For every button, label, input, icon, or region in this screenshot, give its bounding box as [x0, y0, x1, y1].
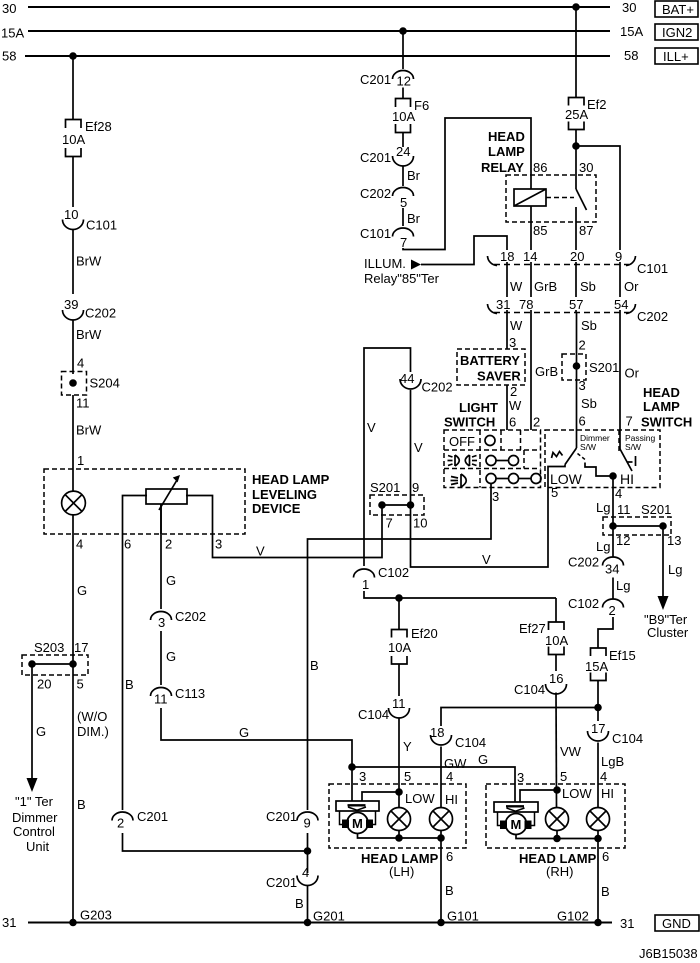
svg-text:5: 5 — [551, 485, 558, 500]
wire BrW C101 to C202 — [73, 229, 102, 294]
node C201-9/2 junction — [304, 847, 312, 855]
svg-text:10A: 10A — [62, 132, 85, 147]
svg-text:15A: 15A — [620, 24, 643, 39]
wire G junction to RH lamp pin3 — [352, 752, 515, 802]
svg-text:M: M — [511, 817, 522, 832]
wire bus15A to C201 pin12 — [402, 31, 404, 69]
wire C201-12 to fuse F6 — [402, 88, 404, 99]
svg-text:25A: 25A — [565, 107, 588, 122]
wire Br C201-24 to C202-5 — [403, 166, 421, 186]
svg-text:IGN2: IGN2 — [662, 25, 692, 40]
svg-text:OFF: OFF — [449, 434, 475, 449]
battery saver box — [457, 349, 525, 385]
node LH LOW junction — [395, 788, 403, 796]
junction on bus 30 — [572, 3, 580, 11]
splice S204 — [62, 372, 120, 396]
connector C201 pin 12 — [360, 71, 414, 89]
svg-text:12: 12 — [616, 533, 630, 548]
light switch headlamp contacts — [486, 474, 541, 505]
svg-text:11: 11 — [617, 502, 631, 517]
wire V leveling pin3 to splice S201 pin7 — [213, 516, 383, 559]
svg-text:3: 3 — [215, 537, 222, 552]
wire ILLUM to C101 pin18 — [421, 236, 507, 312]
wire W battery saver to light switch pin6 — [507, 384, 522, 430]
svg-text:Relay"85"Ter: Relay"85"Ter — [364, 271, 440, 286]
svg-text:SAVER: SAVER — [477, 369, 521, 384]
svg-text:C201: C201 — [360, 150, 391, 165]
LH HI lamp — [430, 808, 453, 831]
svg-text:20: 20 — [570, 249, 584, 264]
node RH lamp common junctions — [553, 835, 561, 843]
svg-text:V: V — [482, 552, 491, 567]
connector C102 pin 2 — [568, 596, 624, 618]
svg-text:Sb: Sb — [580, 279, 596, 294]
svg-text:58: 58 — [624, 48, 638, 63]
splice S201 (pins 9/7/10) — [370, 480, 427, 531]
svg-text:C104: C104 — [358, 707, 389, 722]
svg-text:"1" Ter: "1" Ter — [15, 794, 54, 809]
relay box — [506, 175, 596, 222]
junction on bus 58 — [69, 52, 77, 60]
svg-text:78: 78 — [519, 297, 533, 312]
fuse Ef20 10A — [388, 626, 438, 664]
wire B S203 to ground G203 — [73, 664, 86, 923]
wire RH HI lamp bottom to ground G102 — [598, 831, 610, 923]
wire Y C104-11 to LH lamp pin5 — [399, 719, 412, 808]
svg-text:57: 57 — [569, 297, 583, 312]
wire RH pin3 into motor — [514, 801, 516, 804]
svg-text:B: B — [445, 883, 454, 898]
node Ef15 output junction — [594, 704, 602, 712]
wire rheostat right to pin3 — [186, 496, 213, 535]
light switch OFF position — [449, 434, 495, 449]
fuse Ef15 15A — [585, 648, 636, 681]
svg-text:3: 3 — [359, 769, 366, 784]
wire rheostat left to pin6 — [123, 496, 148, 535]
connector C104 pin 18 — [430, 725, 486, 750]
svg-text:LgB: LgB — [601, 754, 624, 769]
svg-text:10A: 10A — [388, 640, 411, 655]
svg-text:LOW: LOW — [562, 786, 592, 801]
svg-text:18: 18 — [430, 725, 444, 740]
svg-text:86: 86 — [533, 160, 547, 175]
svg-text:3: 3 — [492, 489, 499, 504]
connector C104 pin 17 — [588, 721, 644, 746]
head lamp leveling device box — [44, 469, 245, 534]
LH leveling motor — [336, 801, 379, 834]
svg-text:Sb: Sb — [581, 318, 597, 333]
svg-text:30: 30 — [2, 1, 16, 16]
svg-text:85: 85 — [533, 223, 547, 238]
svg-text:54: 54 — [614, 297, 628, 312]
svg-text:31: 31 — [496, 297, 510, 312]
svg-text:2: 2 — [510, 384, 517, 399]
connector row C101 — [488, 249, 669, 276]
svg-text:11: 11 — [154, 692, 168, 707]
wire C101-7 loop to relay coil 86 — [403, 118, 531, 250]
svg-text:3: 3 — [158, 615, 165, 630]
svg-text:B: B — [295, 896, 304, 911]
node G wire junction — [348, 763, 356, 771]
svg-text:31: 31 — [620, 916, 634, 931]
svg-text:Lg: Lg — [596, 539, 610, 554]
light switch parking icon — [448, 455, 478, 466]
wire Ef2 to relay contact 30 — [575, 130, 577, 190]
wire Ef27 to C104 pin16 — [555, 655, 557, 672]
svg-text:C102: C102 — [568, 596, 599, 611]
svg-text:C201: C201 — [266, 875, 297, 890]
svg-text:15A: 15A — [585, 659, 608, 674]
svg-text:17: 17 — [591, 721, 605, 736]
connector C104 pin 11 — [358, 696, 410, 722]
svg-text:31: 31 — [2, 915, 16, 930]
LH LOW lamp — [388, 808, 411, 831]
leveling device title — [252, 472, 330, 516]
wire VW C104-16 to RH lamp pin5 — [556, 693, 582, 808]
svg-text:S203: S203 — [34, 640, 64, 655]
svg-text:B: B — [601, 884, 610, 899]
connector C202 pin 39 — [63, 297, 117, 321]
svg-text:C104: C104 — [455, 735, 486, 750]
svg-text:Ef15: Ef15 — [609, 648, 636, 663]
svg-text:HI: HI — [601, 786, 614, 801]
svg-text:Lg: Lg — [616, 578, 630, 593]
wire Lg S201-13 to B9 cluster arrow — [658, 526, 683, 610]
svg-text:G: G — [36, 724, 46, 739]
svg-text:W: W — [510, 279, 523, 294]
svg-text:W: W — [509, 398, 522, 413]
wire RH LOW lamp bottom — [556, 831, 558, 839]
wire W C202-31 to battery saver — [507, 312, 523, 350]
svg-text:C102: C102 — [378, 565, 409, 580]
svg-text:V: V — [256, 544, 265, 559]
relay coil to contact dashed link — [546, 197, 574, 199]
RH LOW lamp — [546, 808, 569, 831]
svg-text:LOW: LOW — [405, 791, 435, 806]
svg-text:HEAD: HEAD — [643, 385, 680, 400]
svg-text:11: 11 — [392, 696, 406, 711]
leveling lamp — [62, 491, 86, 515]
wire B C201-4 to ground G201 — [295, 886, 308, 923]
svg-text:17: 17 — [74, 640, 88, 655]
svg-text:2: 2 — [533, 415, 540, 430]
terminal box ILL+ — [655, 48, 698, 64]
svg-text:39: 39 — [64, 297, 78, 312]
rheostat in leveling device — [146, 475, 187, 510]
bus 15A (IGN2) — [1, 24, 643, 41]
wire Lg C202-34 to C102 pin2 — [613, 578, 630, 600]
svg-text:30: 30 — [622, 0, 636, 15]
connector C201 pin 24 — [360, 144, 414, 166]
svg-text:Sb: Sb — [581, 396, 597, 411]
svg-text:3: 3 — [517, 770, 524, 785]
svg-text:LIGHT: LIGHT — [459, 400, 498, 415]
svg-text:Lg: Lg — [596, 500, 610, 515]
svg-text:S201: S201 — [370, 480, 400, 495]
svg-text:LAMP: LAMP — [488, 144, 525, 159]
fuse Ef27 10A — [519, 621, 568, 655]
svg-text:5: 5 — [560, 769, 567, 784]
dimmer switch blade — [565, 448, 577, 465]
svg-text:HI: HI — [620, 471, 634, 487]
wire F6 to C201 pin24 — [402, 133, 404, 148]
splice S201 (pins 2/3) — [562, 354, 619, 380]
wire C102-1 to fuse junction — [364, 591, 556, 598]
wire dimmer HI contact step to node — [585, 463, 613, 477]
svg-text:G102: G102 — [557, 909, 589, 924]
RH HI lamp — [587, 808, 610, 831]
head lamp LH title — [361, 851, 439, 879]
svg-text:6: 6 — [124, 537, 131, 552]
svg-text:6: 6 — [446, 849, 453, 864]
svg-text:24: 24 — [396, 144, 410, 159]
svg-text:ILLUM.: ILLUM. — [364, 256, 406, 271]
svg-text:2: 2 — [579, 338, 586, 353]
svg-text:GND: GND — [662, 916, 691, 931]
node Ef20 feed junction — [395, 594, 403, 602]
splice S203 — [22, 640, 88, 692]
svg-text:VW: VW — [560, 744, 582, 759]
wire Sb C202-57 to dimmer switch pin6 — [577, 312, 597, 448]
svg-text:S/W: S/W — [580, 442, 596, 452]
svg-text:RELAY: RELAY — [481, 160, 524, 175]
connector row C202 — [488, 297, 669, 324]
svg-text:10: 10 — [64, 207, 78, 222]
wire B light switch pin3 to C201 pin9 — [308, 484, 492, 811]
label B9 Ter Cluster — [644, 612, 689, 640]
wire Ef28 to C101 pin10 — [72, 157, 74, 208]
wire V S201-9 to C202 pin44 — [411, 390, 424, 505]
svg-text:C202: C202 — [637, 309, 668, 324]
svg-text:Y: Y — [403, 739, 412, 754]
svg-text:7: 7 — [386, 516, 393, 531]
wire RH LOW branch to motor — [520, 790, 557, 802]
wire BrW S204 to leveling device pin1 — [73, 395, 102, 492]
connector C201 pin 9 — [266, 809, 318, 831]
svg-text:2: 2 — [609, 603, 616, 618]
svg-text:Ef20: Ef20 — [411, 626, 438, 641]
connector C202 pin 3 — [151, 609, 207, 630]
head lamp switch title — [641, 385, 692, 430]
svg-text:C202: C202 — [360, 186, 391, 201]
wire junction to fuse Ef20 — [398, 598, 400, 629]
svg-text:14: 14 — [523, 249, 537, 264]
svg-text:C202: C202 — [175, 609, 206, 624]
svg-text:4: 4 — [76, 537, 83, 552]
wire LH pin3 into motor — [351, 767, 353, 801]
svg-text:ILL+: ILL+ — [663, 49, 689, 64]
head lamp RH box — [486, 784, 625, 848]
connector C101 pin 7 — [360, 226, 414, 250]
svg-text:2: 2 — [165, 537, 172, 552]
svg-text:B: B — [125, 677, 134, 692]
bus 58 (ILL+) — [2, 48, 638, 64]
wire LH motor bottom to common — [358, 834, 442, 839]
svg-text:4: 4 — [446, 769, 453, 784]
wire BrW C202 to S204 — [73, 320, 102, 374]
LH pin labels 3 5 4 — [359, 769, 453, 784]
svg-text:M: M — [352, 816, 363, 831]
svg-text:G: G — [166, 573, 176, 588]
light switch headlamp icon — [451, 474, 467, 487]
svg-text:(W/O: (W/O — [77, 709, 107, 724]
svg-text:5: 5 — [77, 677, 84, 692]
wire bus58 to fuse Ef28 — [72, 56, 74, 120]
dimmer S/W label — [580, 433, 610, 452]
wire G leveling pin2 to C202 pin3 — [161, 504, 176, 609]
svg-text:6: 6 — [509, 415, 516, 430]
wire C201-2 to junction — [123, 833, 308, 851]
connector C202 pin 44 — [400, 371, 453, 395]
svg-text:Or: Or — [624, 279, 639, 294]
svg-text:C201: C201 — [137, 809, 168, 824]
junction on bus 15A — [399, 27, 407, 35]
wire G C113-11 across to head lamps — [161, 708, 352, 767]
ground G101 — [437, 909, 479, 927]
wire labels W GrB Sb Or — [510, 279, 639, 294]
wire G S203 to dimmer control unit arrow — [27, 664, 47, 792]
svg-text:SWITCH: SWITCH — [444, 415, 495, 430]
svg-text:3: 3 — [509, 335, 516, 350]
svg-text:Ef2: Ef2 — [587, 97, 607, 112]
passing switch contact — [627, 456, 636, 466]
svg-text:9: 9 — [615, 249, 622, 264]
svg-text:SWITCH: SWITCH — [641, 415, 692, 430]
svg-text:20: 20 — [37, 677, 51, 692]
svg-text:5: 5 — [400, 195, 407, 210]
connector C102 pin 1 — [354, 565, 410, 592]
svg-text:Or: Or — [625, 366, 640, 381]
svg-text:C104: C104 — [612, 731, 643, 746]
svg-text:Unit: Unit — [26, 839, 50, 854]
svg-text:9: 9 — [412, 480, 419, 495]
svg-text:10A: 10A — [545, 633, 568, 648]
svg-text:4: 4 — [600, 769, 607, 784]
svg-text:C202: C202 — [85, 306, 116, 321]
svg-text:87: 87 — [579, 223, 593, 238]
node RH LOW junction — [553, 786, 561, 794]
dimmer blade dashed link — [578, 454, 586, 460]
connector C101 pin 10 — [63, 207, 118, 233]
svg-text:C101: C101 — [637, 261, 668, 276]
svg-text:S201: S201 — [589, 360, 619, 375]
svg-text:BrW: BrW — [76, 327, 102, 342]
svg-text:Ef28: Ef28 — [85, 119, 112, 134]
svg-text:F6: F6 — [414, 98, 429, 113]
connector C113 pin 11 — [151, 686, 206, 707]
svg-text:DIM.): DIM.) — [77, 724, 109, 739]
svg-text:HEAD LAMP: HEAD LAMP — [252, 472, 330, 487]
svg-text:LAMP: LAMP — [643, 399, 680, 414]
wire LH LOW branch to motor — [362, 792, 399, 801]
svg-text:34: 34 — [605, 562, 619, 577]
terminal box GND — [655, 915, 699, 931]
svg-text:(RH): (RH) — [546, 864, 573, 879]
wire rheostat wiper pin2 — [160, 504, 162, 534]
svg-text:C101: C101 — [86, 218, 117, 233]
svg-text:Lg: Lg — [668, 562, 682, 577]
wire Or junction to C101 pin9 — [576, 146, 620, 449]
fuse Ef28 10A — [62, 119, 112, 157]
svg-text:10A: 10A — [392, 109, 415, 124]
wire LH LOW lamp bottom — [398, 831, 400, 839]
svg-text:Dimmer: Dimmer — [12, 810, 58, 825]
connector C201 pin 4 — [266, 865, 318, 890]
svg-text:HEAD: HEAD — [488, 129, 525, 144]
svg-text:HI: HI — [445, 792, 458, 807]
svg-text:Control: Control — [13, 824, 55, 839]
svg-text:6: 6 — [579, 414, 586, 429]
svg-text:Br: Br — [407, 211, 421, 226]
svg-text:6: 6 — [602, 849, 609, 864]
wire Br C202-5 to C101-7 — [403, 208, 421, 226]
svg-text:G: G — [77, 583, 87, 598]
svg-text:DEVICE: DEVICE — [252, 501, 301, 516]
svg-text:S201: S201 — [641, 502, 671, 517]
svg-text:5: 5 — [404, 769, 411, 784]
fuse F6 10A — [392, 98, 429, 133]
svg-text:4: 4 — [302, 865, 309, 880]
head lamp LH box — [329, 784, 466, 848]
wire V C202-44 over to C102 pin1 — [364, 348, 411, 566]
leveling device pin labels 4 6 2 3 — [76, 537, 222, 552]
svg-text:1: 1 — [362, 577, 369, 592]
wire B leveling pin6 to C201 pin2 — [123, 534, 134, 810]
svg-text:1: 1 — [77, 453, 84, 468]
svg-text:C201: C201 — [360, 72, 391, 87]
label (W/O DIM.) — [77, 709, 109, 739]
svg-text:C113: C113 — [175, 686, 205, 701]
svg-text:V: V — [367, 420, 376, 435]
ground G102 — [557, 909, 602, 927]
relay pin labels 86 30 85 87 — [533, 160, 593, 238]
ground G201 — [304, 909, 345, 927]
svg-text:12: 12 — [397, 74, 411, 89]
svg-text:BAT+: BAT+ — [662, 2, 694, 17]
wire Ef27 feed down — [555, 598, 557, 622]
svg-text:G: G — [239, 725, 249, 740]
label "1" Ter Dimmer Control Unit — [12, 794, 58, 854]
svg-text:B: B — [310, 658, 319, 673]
wire GW C104-18 to LH lamp pin4 — [441, 747, 467, 808]
svg-text:30: 30 — [579, 160, 593, 175]
dimmer actuator squiggle — [552, 452, 563, 459]
wire G C202-3 to C113 pin11 — [161, 631, 176, 685]
terminal box IGN2 — [655, 24, 698, 40]
bus 31 (GND) — [2, 915, 634, 931]
terminal box BAT+ — [655, 1, 698, 17]
light switch box — [444, 430, 541, 488]
wire LH HI lamp bottom to ground G101 — [441, 831, 454, 923]
head lamp switch box — [545, 430, 660, 488]
svg-text:18: 18 — [500, 249, 514, 264]
head lamp relay title — [481, 129, 525, 175]
svg-text:16: 16 — [549, 671, 563, 686]
svg-text:V: V — [414, 440, 423, 455]
wire LOW output to splice S201 pin10 — [411, 465, 566, 568]
svg-text:15A: 15A — [1, 26, 24, 41]
svg-text:B: B — [77, 797, 86, 812]
wire C102-2 step to fuse Ef15 — [598, 617, 613, 648]
svg-text:13: 13 — [667, 533, 681, 548]
svg-text:C101: C101 — [360, 226, 391, 241]
svg-text:4: 4 — [77, 356, 84, 371]
wire lamp bottom pin4 — [72, 515, 74, 534]
node HI junction — [609, 472, 617, 480]
wire Lg S201-12 to C202 pin34 — [596, 526, 613, 558]
svg-text:BrW: BrW — [76, 254, 102, 269]
svg-text:Ef27: Ef27 — [519, 621, 546, 636]
